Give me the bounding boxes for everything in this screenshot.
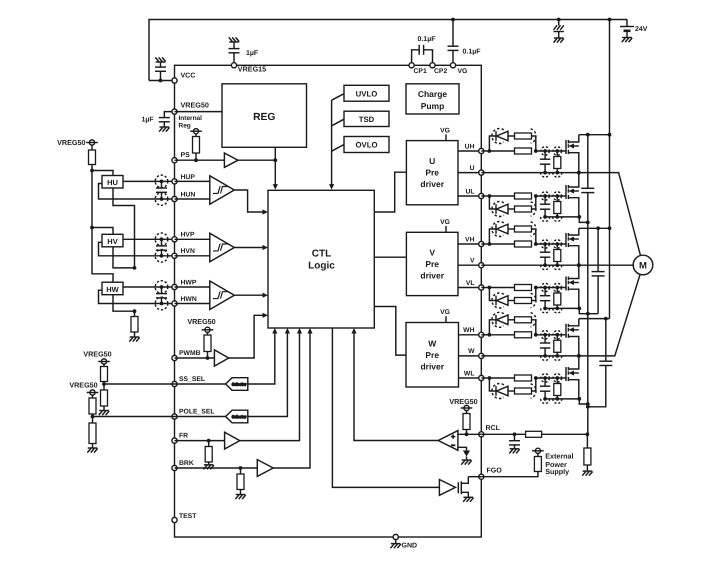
reference: filled triangle [463, 451, 470, 457]
ground below FR resistor [204, 464, 214, 466]
ground below GND pin [395, 540, 397, 544]
node: VL source taps [543, 307, 547, 311]
resistor: PWMB pull-up [207, 333, 209, 336]
capacitor: 0.1uF flying cap CP1-CP2 [412, 50, 420, 63]
svg-text:driver: driver [420, 270, 444, 280]
wire: VG stub V [445, 226, 447, 232]
gate drive cell VL [481, 287, 489, 289]
ground below POLE_SEL divider [88, 447, 98, 449]
resistor: WH gate-source [556, 335, 558, 341]
capacitor: W leg snubber [605, 319, 607, 362]
wire: SS_SEL input [104, 383, 175, 385]
svg-text:HVP: HVP [181, 232, 195, 239]
wire: V high drain [579, 227, 610, 229]
svg-text:VG: VG [440, 309, 450, 316]
node: bridge rail junction [608, 18, 612, 22]
capacitor: bulk electrolytic at top [558, 20, 560, 26]
resistor: SS_SEL pull-down [103, 384, 105, 390]
wire: HU positive output [123, 180, 175, 182]
wire: POLE_SEL input [93, 416, 175, 418]
dashed option circle HVP [155, 233, 168, 246]
capacitor: WH gate-source [544, 335, 546, 343]
node: SS_SEL divider tap [102, 382, 106, 386]
wire: RCL external sense [481, 433, 587, 435]
wire: RCL comparator to CTL [354, 334, 438, 441]
transistor: UH power MOSFET [565, 140, 567, 154]
capacitor: VH gate-source [544, 244, 546, 252]
wire: POLE_SEL to CTL [248, 334, 288, 417]
svg-text:Reg: Reg [179, 122, 191, 129]
node: chain junction HW [133, 309, 137, 313]
node: VH gate cap tap [543, 242, 547, 246]
supply VREG50 hall bias [89, 140, 94, 145]
block: W Pre driver [406, 323, 459, 388]
svg-text:HW: HW [106, 285, 119, 294]
pin POLE_SEL [172, 414, 177, 419]
node: WH gate cap tap [543, 333, 547, 337]
pin HUP [172, 179, 177, 184]
node: V low source joins [586, 312, 590, 316]
capacitor: 0.1uF VG reservoir [452, 50, 454, 62]
node: VH source to phase [577, 263, 581, 267]
node: VCC decoupling junction [159, 79, 163, 83]
svg-text:VH: VH [465, 236, 475, 243]
resistor: BRK pull-down [240, 468, 242, 474]
wire: RCL to comparator [458, 433, 481, 435]
svg-text:REG: REG [253, 112, 275, 123]
svg-text:V: V [470, 258, 475, 265]
node: UH gate cap tap [543, 149, 547, 153]
svg-text:POLE_SEL: POLE_SEL [179, 409, 215, 416]
hall element HV [102, 234, 123, 247]
resistor: hall bias [91, 145, 93, 150]
wire: bias chain down [91, 171, 93, 228]
svg-text:HUP: HUP [181, 174, 196, 181]
diode: UH gate discharge [489, 136, 496, 151]
ground below bulk cap [554, 37, 564, 39]
pin HWP [172, 284, 177, 289]
svg-text:VCC: VCC [181, 73, 196, 80]
node: WL gate cap tap [543, 376, 547, 380]
node: VL gate cap tap [543, 286, 547, 290]
pin VL [479, 285, 484, 290]
resistor: FGO pull-up [537, 454, 539, 457]
pin VREG50 [172, 109, 177, 114]
node: HWN filter tap [160, 302, 164, 306]
node: UH source taps [543, 171, 547, 175]
comparator: HV schmitt [175, 238, 210, 240]
ground below RCL filter cap [510, 448, 520, 450]
svg-text:Charge: Charge [418, 89, 448, 99]
pin VREG15 [231, 63, 236, 68]
svg-text:Supply: Supply [545, 467, 569, 476]
pin VH [479, 241, 484, 246]
ground below SS_SEL divider [99, 410, 109, 412]
ground below BRK resistor [236, 494, 246, 496]
resistor: RCL series [526, 431, 542, 437]
node: sense node [586, 432, 590, 436]
resistor: hall chain to ground [134, 311, 136, 316]
wire: FR input [175, 440, 225, 442]
wire: HW comp to CTL [234, 294, 262, 296]
gate drive cell WL [481, 377, 489, 379]
svg-text:CP2: CP2 [434, 68, 447, 75]
wire: HV comp to CTL [234, 247, 262, 249]
wire: FG from CTL [332, 328, 439, 487]
svg-text:M: M [639, 261, 647, 272]
wire: UH output [458, 150, 481, 152]
wire: bridge supply rail [609, 20, 611, 319]
ground below 24V battery [622, 37, 632, 39]
pin W [479, 353, 484, 358]
resistor: WL gate-source [556, 378, 558, 384]
dashed option arcs WH branch [492, 312, 504, 327]
wire: VG stub W [445, 316, 447, 322]
svg-text:UVLO: UVLO [356, 89, 378, 98]
pin WL [479, 375, 484, 380]
wire: W phase to motor [481, 274, 640, 356]
capacitor: HU input filter [161, 181, 163, 188]
capacitor: HW input filter [161, 287, 163, 294]
diode: UL gate discharge [489, 196, 496, 209]
resistor: internal reg to PS [195, 134, 197, 137]
wire: protection bus to CTL [332, 94, 344, 101]
comparator: HU schmitt [175, 180, 210, 182]
resistor: UH gate-source [556, 151, 558, 157]
svg-text:HVN: HVN [181, 248, 195, 255]
wire: V low source [545, 307, 579, 309]
svg-text:UH: UH [465, 143, 475, 150]
wire: VCC input [149, 80, 175, 82]
capacitor: WL gate-source [544, 378, 546, 386]
svg-text:GND: GND [402, 542, 418, 549]
node: UL gate cap tap [543, 194, 547, 198]
pin U [479, 170, 484, 175]
svg-text:Logic: Logic [308, 261, 335, 272]
pin HUN [172, 196, 177, 201]
pin TEST [172, 517, 177, 522]
capacitor: VCC decoupling [160, 71, 162, 80]
svg-text:VREG50: VREG50 [449, 397, 477, 406]
node: HUN filter tap [160, 197, 164, 201]
wire: UL output [458, 195, 481, 197]
resistor: UH branch [515, 133, 532, 139]
svg-text:Pre: Pre [425, 168, 439, 178]
resistor: WH gate [515, 332, 532, 338]
wire: REG to CTL [274, 147, 276, 185]
svg-text:VG: VG [458, 68, 468, 75]
svg-text:FR: FR [179, 433, 188, 440]
IC boundary [175, 65, 482, 537]
svg-text:Pre: Pre [425, 350, 439, 360]
supply: external power [535, 448, 540, 453]
wire: FR to CTL [240, 334, 300, 441]
wire: U low source [545, 216, 579, 218]
svg-text:W: W [468, 348, 475, 355]
resistor: VL gate [515, 285, 532, 291]
dashed option circle HUN [155, 193, 168, 206]
svg-text:UL: UL [465, 188, 474, 195]
block: CTL Logic [268, 190, 374, 328]
transistor: FGO open drain NMOS [457, 482, 459, 493]
dashed option circle HWP [155, 281, 168, 294]
buffer: BRK [257, 460, 273, 477]
internal regulator output symbol [193, 129, 198, 134]
wire: bias to HU [92, 171, 113, 176]
wire: HU comp to CTL [234, 190, 262, 212]
resistor: POLE_SEL pull-down [92, 417, 94, 424]
block: TSD [344, 111, 389, 126]
pin PS [172, 158, 177, 163]
block: U Pre driver [406, 141, 458, 205]
wire: V phase to motor [481, 264, 633, 266]
pin RCL [479, 432, 484, 437]
pin VG [450, 63, 455, 68]
pin FGO [479, 474, 484, 479]
wire: W low source [545, 398, 579, 400]
svg-text:VREG50: VREG50 [181, 100, 209, 109]
wire: FGO internal [468, 476, 481, 478]
svg-text:CP1: CP1 [414, 68, 427, 75]
node: VL drain to phase [577, 263, 581, 267]
svg-text:TEST: TEST [179, 513, 197, 520]
node: HUP filter tap [160, 180, 164, 184]
svg-text:WH: WH [463, 327, 474, 334]
resistor: POLE_SEL pull-up [92, 395, 94, 398]
wire: HU negative output [99, 184, 175, 200]
svg-text:BRK: BRK [179, 460, 194, 467]
resistor: VH branch [515, 226, 532, 232]
dashed option arcs VH branch [492, 222, 504, 237]
svg-text:VREG50: VREG50 [187, 317, 215, 326]
capacitor: U leg snubber [587, 135, 589, 189]
wire: WL output [459, 377, 482, 379]
capacitor: V leg snubber [597, 228, 599, 271]
node: HVN filter tap [160, 254, 164, 258]
node: UL source taps [543, 215, 547, 219]
svg-text:0.1µF: 0.1µF [417, 36, 436, 43]
node: bulk cap junction [557, 18, 561, 22]
node: RCL comparator tap [465, 432, 469, 436]
wire: CTL to U Pre driver [374, 172, 406, 212]
pin UH [479, 148, 484, 153]
pin HWN [172, 301, 177, 306]
svg-text:RCL: RCL [486, 425, 501, 432]
resistor: FR pull-down [208, 441, 210, 447]
svg-text:driver: driver [420, 179, 444, 189]
diode: WL gate discharge [489, 378, 496, 391]
motor M [633, 255, 653, 275]
selector: POLE_SEL [226, 410, 248, 423]
wire: PWMB input [175, 357, 215, 359]
svg-text:HU: HU [107, 178, 118, 187]
node: PS junction [194, 158, 198, 162]
node: REG enable junction [273, 158, 277, 162]
svg-text:VG: VG [440, 219, 450, 226]
transistor: WH power MOSFET [565, 324, 567, 338]
capacitor: VL gate-source [544, 288, 546, 296]
svg-text:HWN: HWN [181, 296, 197, 303]
svg-text:WL: WL [464, 370, 475, 377]
resistor: WL gate [515, 375, 532, 381]
buffer: PS [224, 153, 238, 167]
wire: HW chain down [113, 295, 135, 312]
wire: PS input [175, 159, 225, 161]
svg-text:U: U [470, 165, 475, 172]
wire: U phase to motor [481, 173, 640, 256]
transistor: WL power MOSFET [565, 367, 567, 381]
wire: common low-side source rail [587, 222, 589, 434]
diode: WH gate discharge [489, 320, 496, 335]
svg-text:driver: driver [420, 361, 444, 371]
resistor: UH gate [515, 148, 532, 154]
ground above VCC cap [156, 61, 166, 63]
resistor: VL branch [515, 298, 532, 304]
wire: CTL to V Pre driver [374, 256, 406, 258]
wire: SS_SEL to CTL [248, 334, 275, 385]
node: FR pull-down junction [207, 439, 211, 443]
hall element HU [102, 176, 123, 189]
svg-text:V: V [429, 247, 435, 257]
node: POLE_SEL divider tap [91, 415, 95, 419]
svg-text:VREG50: VREG50 [69, 380, 97, 389]
node: UL drain to phase [577, 171, 581, 175]
node: chain junction HV [133, 266, 137, 270]
diode: VH gate discharge [489, 229, 496, 244]
svg-text:VREG50: VREG50 [83, 349, 111, 358]
buffer: FG output [439, 480, 455, 496]
resistor: WL branch [515, 388, 532, 394]
wire: CTL to W Pre driver [374, 307, 406, 356]
wire: HV negative output [99, 242, 175, 256]
wire: HV chain down [113, 247, 135, 268]
node: WL source taps [543, 397, 547, 401]
pin GND [393, 534, 398, 539]
pin V [479, 263, 484, 268]
comparator: current limit (points left) [438, 431, 458, 451]
node: hall bias HU tap [90, 169, 94, 173]
wire: PWMB to CTL [229, 315, 263, 358]
capacitor: RCL filter [514, 434, 516, 440]
capacitor: UL gate-source [544, 196, 546, 204]
capacitor: UH gate-source [544, 151, 546, 159]
capacitor: HV input filter [161, 239, 163, 246]
wire: bias to HV [92, 228, 113, 235]
wire: PS buffer out [238, 159, 275, 161]
dashed option arcs UL branch [492, 202, 504, 217]
buffer: PWMB [214, 350, 228, 366]
svg-text:1µF: 1µF [246, 50, 259, 57]
capacitor: 1uF on VREG15 [233, 53, 235, 63]
wire: VL output [458, 287, 481, 289]
pin SS_SEL [172, 381, 177, 386]
svg-text:CTL: CTL [312, 249, 331, 260]
svg-text:HWP: HWP [181, 279, 197, 286]
node: HVP filter tap [160, 237, 164, 241]
ground above VREG15 cap [229, 41, 239, 43]
wire: HW positive output [123, 286, 175, 288]
dashed option arcs WL branch [492, 384, 504, 399]
svg-text:W: W [428, 338, 437, 348]
svg-text:Internal: Internal [179, 115, 203, 122]
dashed option arcs VL branch [492, 293, 504, 308]
wire: bias chain to HW [92, 228, 113, 283]
resistor: VL gate-source [556, 288, 558, 294]
node: HWP filter tap [160, 285, 164, 289]
node: VG rail junction [451, 18, 455, 22]
ground below reference [462, 459, 472, 461]
node: VH source taps [543, 263, 547, 267]
svg-text:U: U [429, 156, 435, 166]
block: UVLO [344, 85, 389, 101]
block: Charge Pump [406, 84, 459, 114]
wire: VG stub U [445, 134, 447, 140]
dashed option circle HWN [155, 297, 168, 310]
block: REG [222, 84, 307, 148]
pin PWMB [172, 355, 177, 360]
wire: BRK input [175, 467, 258, 469]
svg-text:Selector: Selector [232, 415, 247, 419]
resistor: VH gate-source [556, 244, 558, 250]
wire: comparator minus input to reference [458, 447, 467, 451]
buffer: FR [225, 432, 240, 449]
svg-text:0.1µF: 0.1µF [463, 49, 482, 56]
svg-text:Selector: Selector [232, 383, 247, 387]
wire: HW negative output [99, 290, 175, 303]
gate drive cell WH [481, 334, 489, 336]
pin HVP [172, 237, 177, 242]
svg-text:24V: 24V [635, 26, 648, 33]
wire: 24V top supply rail [149, 20, 627, 81]
wire: VH output [458, 243, 481, 245]
resistor: UL branch [515, 206, 532, 212]
pin VCC [172, 78, 177, 83]
wire: WH output [459, 334, 482, 336]
svg-text:PS: PS [181, 152, 191, 159]
capacitor: 1uF on VREG50 [164, 112, 172, 118]
svg-text:VL: VL [466, 280, 475, 287]
comparator: HW schmitt [175, 286, 210, 288]
wire: HV positive output [123, 238, 175, 240]
svg-text:HUN: HUN [181, 191, 196, 198]
resistor: VH gate [515, 241, 532, 247]
wire: U output [458, 172, 481, 174]
ground below hall chain [130, 336, 140, 338]
wire: V output [458, 264, 481, 266]
block: V Pre driver [406, 232, 458, 295]
wire: U high drain [579, 134, 610, 136]
resistor: UL gate-source [556, 196, 558, 202]
battery: 24V supply [626, 20, 628, 27]
svg-text:SS_SEL: SS_SEL [179, 376, 205, 383]
pin UL [479, 193, 484, 198]
wire: VREG50 to REG [175, 111, 223, 113]
svg-text:VREG15: VREG15 [238, 64, 266, 73]
block: OVLO [344, 137, 389, 153]
svg-text:VG: VG [440, 127, 450, 134]
diode: VL gate discharge [489, 288, 496, 301]
node: RCL filter tap [513, 432, 517, 436]
hall element HW [102, 282, 123, 295]
transistor: VL power MOSFET [565, 277, 567, 291]
pin FR [172, 438, 177, 443]
svg-text:FGO: FGO [487, 467, 503, 474]
pin BRK [172, 465, 177, 470]
wire: FGO external pull-up [481, 472, 538, 477]
dashed option arcs UH branch [492, 129, 504, 144]
resistor: WH branch [515, 317, 532, 323]
node: UH source to phase [577, 171, 581, 175]
